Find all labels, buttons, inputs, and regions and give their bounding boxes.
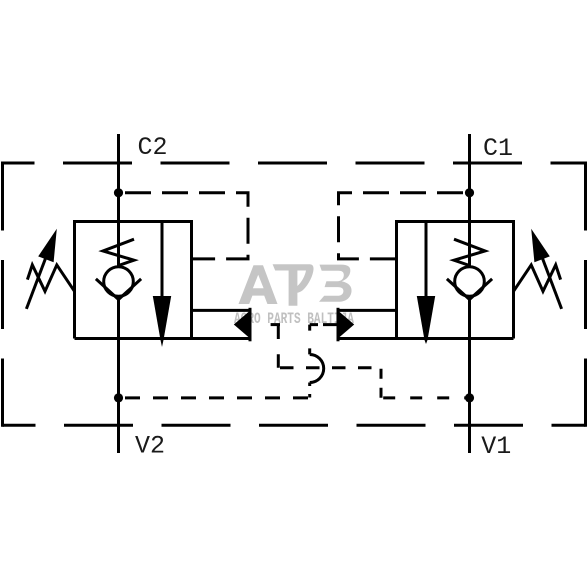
check valve spring right xyxy=(454,239,485,265)
junction dot C2 pilot xyxy=(114,188,123,197)
pilot arrow left head xyxy=(234,311,250,339)
valve body left box xyxy=(75,222,192,339)
junction dot C1 pilot xyxy=(465,188,474,197)
valve body right bottom edge extended xyxy=(338,337,514,340)
pilot line right valve to V2 seg4 xyxy=(119,396,310,399)
check valve seat right xyxy=(447,279,492,300)
relief adjust arrow right shaft xyxy=(541,255,562,309)
outer boundary dashed bottom xyxy=(3,424,586,427)
pilot rail top right xyxy=(338,309,397,312)
outer boundary dashed right xyxy=(584,162,587,427)
pilot line left valve to V1 seg2 xyxy=(277,325,280,368)
svg-text:V2: V2 xyxy=(135,432,165,461)
relief adjust arrow left shaft xyxy=(26,255,47,309)
pilot arrow right head xyxy=(338,311,354,339)
svg-text:C2: C2 xyxy=(138,133,168,162)
junction dot V1 pilot xyxy=(465,393,474,402)
outer boundary dashed top xyxy=(3,162,586,165)
junction dot V2 pilot xyxy=(114,393,123,402)
pilot line crossover jump arc xyxy=(310,355,324,383)
relief spring right xyxy=(514,265,561,291)
valve body right box xyxy=(397,222,514,339)
pilot arrow right base xyxy=(337,308,340,342)
valve body left bottom edge extended xyxy=(75,337,251,340)
watermark APB logo letter A xyxy=(239,265,278,304)
pilot line left valve to V1 seg3 xyxy=(278,366,381,369)
relief spring left xyxy=(27,265,74,291)
port line C2-V2 lower xyxy=(117,296,120,453)
pilot line from C2 to left valve xyxy=(119,193,249,259)
pilot line right valve to V2 seg3 xyxy=(308,383,311,398)
check valve ball left xyxy=(104,267,134,297)
svg-text:C1: C1 xyxy=(483,134,513,163)
flow arrow right head xyxy=(417,296,435,344)
check valve spring left xyxy=(103,239,134,265)
relief adjust arrow right head xyxy=(531,229,550,263)
pilot line left valve to V1 seg4 xyxy=(380,368,383,398)
check valve seat left xyxy=(96,279,141,300)
pilot arrow left base xyxy=(249,308,252,342)
port line C1-V1 upper xyxy=(468,134,471,267)
watermark APB logo letter P xyxy=(273,264,314,306)
watermark APB logo letter B xyxy=(319,265,352,302)
port line C2-V2 upper xyxy=(117,134,120,267)
pilot line right valve to V2 seg1 xyxy=(310,323,338,326)
flow arrow left shaft xyxy=(161,222,164,299)
pilot rail top left xyxy=(192,309,251,312)
relief adjust arrow left head xyxy=(38,229,57,263)
pilot line right valve to V2 seg2 xyxy=(308,325,311,355)
check valve ball right xyxy=(455,267,485,297)
svg-text:V1: V1 xyxy=(481,432,511,461)
outer boundary dashed left xyxy=(1,162,4,427)
pilot line left valve to V1 seg5 xyxy=(381,396,470,399)
flow arrow right shaft xyxy=(425,222,428,299)
port line C1-V1 lower xyxy=(468,296,471,453)
flow arrow left head xyxy=(153,296,171,347)
pilot line left valve to V1 seg1 xyxy=(250,323,280,326)
pilot line from C1 to right valve xyxy=(339,193,470,259)
